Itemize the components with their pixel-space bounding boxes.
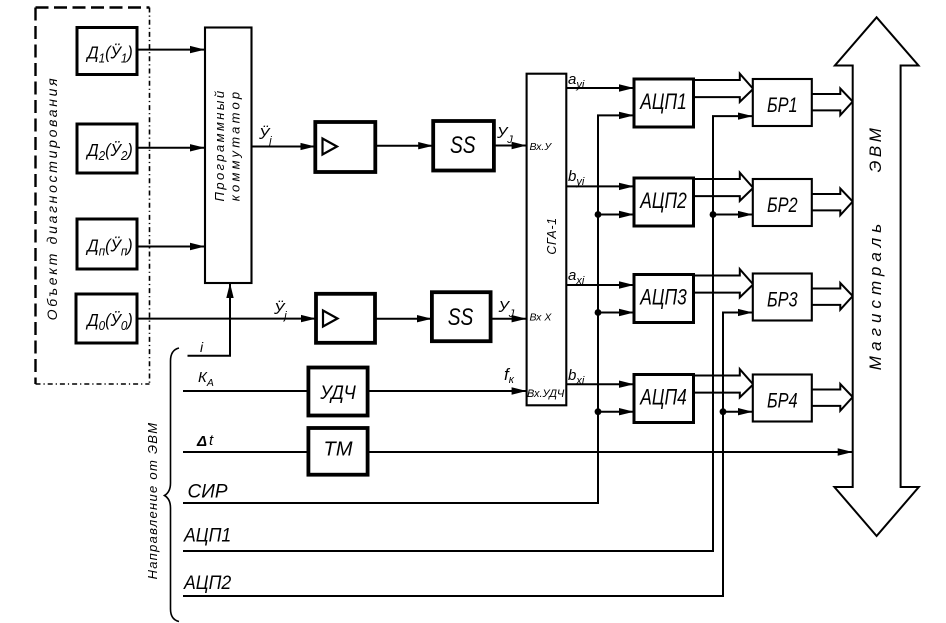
SGA output a_xi to ADC3 <box>566 267 634 287</box>
svg-text:ЭВМ: ЭВМ <box>866 125 885 173</box>
svg-text:SS: SS <box>448 303 474 331</box>
bus arrow BR1 to EVM bus <box>812 89 853 116</box>
bus arrow ADC1 to BR1 <box>694 74 754 102</box>
bus arrow ADC4 to BR4 <box>694 369 754 397</box>
sensor D0 <box>76 294 137 343</box>
svg-text:Δ: Δ <box>196 433 207 450</box>
BR3 box <box>753 274 812 321</box>
bus arrow ADC3 to BR3 <box>694 269 754 297</box>
TM box <box>308 428 367 475</box>
wire SS1 to SGA input Vh.U <box>494 145 527 147</box>
ADC2 box <box>634 178 694 226</box>
sensor D1 <box>77 28 137 75</box>
sensor Dn <box>77 219 137 269</box>
svg-text:Магистраль: Магистраль <box>866 219 885 370</box>
amplifier A1 <box>315 122 375 172</box>
control line KA and UDCh <box>183 369 308 391</box>
ADC3 box <box>634 275 694 323</box>
svg-text:АЦП2: АЦП2 <box>639 189 686 213</box>
sensor D2 <box>77 124 137 173</box>
SGA-1 box <box>527 74 567 406</box>
branch to ADC3 <box>598 312 634 314</box>
branch to BR4 <box>723 411 753 413</box>
branch to BR2 <box>713 214 753 216</box>
svg-text:АЦП2: АЦП2 <box>183 571 231 593</box>
programmable commutator box <box>205 28 252 284</box>
control line i <box>188 283 231 356</box>
SGA output a_yi to ADC1 <box>566 71 634 91</box>
svg-text:АЦП1: АЦП1 <box>639 90 686 114</box>
svg-text:СГА-1: СГА-1 <box>545 217 559 254</box>
svg-text:Вх.УДЧ: Вх.УДЧ <box>527 388 565 400</box>
EVM bus double arrow <box>834 17 918 536</box>
svg-text:Вх Х: Вх Х <box>530 312 553 324</box>
ADC4 box <box>634 375 694 423</box>
svg-text:коммутатор: коммутатор <box>228 89 243 202</box>
brace: direction from EVM <box>165 348 180 622</box>
wire D2 to commutator <box>137 147 205 149</box>
svg-text:АЦП3: АЦП3 <box>639 286 686 310</box>
BR2 box <box>753 179 812 226</box>
BR1 box <box>753 79 812 126</box>
SGA output b_yi to ADC2 <box>566 168 634 188</box>
sample-hold SS2 <box>432 292 491 341</box>
svg-text:БР4: БР4 <box>767 389 798 412</box>
svg-text:Направление от ЭВМ: Направление от ЭВМ <box>145 422 160 580</box>
svg-text:БР1: БР1 <box>767 93 798 116</box>
dashed box: object under diagnostics <box>36 8 150 385</box>
bus arrow ADC2 to BR2 <box>694 173 754 201</box>
bus arrow BR3 to EVM bus <box>812 283 853 310</box>
wire Dn to commutator <box>137 246 205 248</box>
wire UDCh to SGA input Vh.UDCh <box>368 390 527 392</box>
branch to ADC4 <box>598 411 634 413</box>
wire A2 to SS2 <box>375 318 432 320</box>
control line ACP2 to BR3/BR4 <box>183 313 753 597</box>
amplifier A2 <box>316 294 375 343</box>
wire commutator to amplifier A1 <box>252 146 316 148</box>
SGA output b_xi to ADC4 <box>566 367 634 387</box>
svg-text:Программный: Программный <box>212 89 227 202</box>
wire D0 to amplifier A2 <box>137 318 316 320</box>
ADC1 box <box>634 79 694 127</box>
control line SIR to ADC second inputs <box>183 115 634 503</box>
svg-text:УДЧ: УДЧ <box>319 382 356 404</box>
wire A1 to SS1 <box>375 145 433 147</box>
sample-hold SS1 <box>433 121 494 171</box>
control line ACP1 to BR1/BR2 <box>183 116 753 551</box>
wire SS2 to SGA input Vh.X <box>491 318 527 320</box>
bus arrow BR2 to EVM bus <box>812 189 853 216</box>
svg-text:АЦП1: АЦП1 <box>183 524 231 546</box>
svg-text:Объект диагностирования: Объект диагностирования <box>44 76 60 321</box>
svg-text:Вх.У: Вх.У <box>530 141 553 153</box>
branch to ADC2 <box>598 214 634 216</box>
bus arrow BR4 to EVM bus <box>812 384 853 411</box>
wire D1 to commutator <box>137 49 205 51</box>
UDCh box <box>308 368 367 416</box>
BR4 box <box>753 375 812 422</box>
svg-text:АЦП4: АЦП4 <box>639 386 686 410</box>
svg-text:SS: SS <box>450 131 476 159</box>
svg-text:СИР: СИР <box>188 482 228 503</box>
svg-text:ТМ: ТМ <box>323 439 352 461</box>
svg-text:БР3: БР3 <box>767 288 798 311</box>
wire TM to EVM bus <box>368 451 853 453</box>
control line dt and TM <box>183 432 308 452</box>
svg-text:БР2: БР2 <box>767 193 798 216</box>
